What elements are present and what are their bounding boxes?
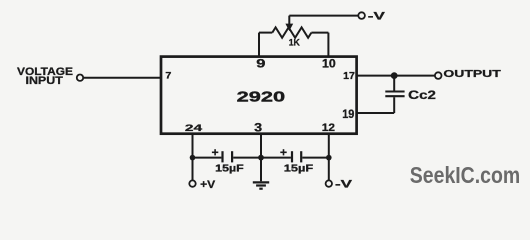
svg-text:9: 9 <box>256 58 265 70</box>
svg-text:-V: -V <box>335 179 353 191</box>
svg-text:12: 12 <box>322 122 335 134</box>
svg-text:24: 24 <box>185 123 203 134</box>
svg-text:INPUT: INPUT <box>26 75 64 87</box>
svg-text:10: 10 <box>322 58 336 70</box>
svg-text:OUTPUT: OUTPUT <box>443 68 501 80</box>
svg-text:-V: -V <box>368 11 386 23</box>
svg-text:15µF: 15µF <box>284 164 313 175</box>
svg-text:Cc2: Cc2 <box>408 88 436 102</box>
svg-text:3: 3 <box>254 122 262 134</box>
svg-text:19: 19 <box>342 107 354 121</box>
svg-text:SeekIC.com: SeekIC.com <box>410 162 520 188</box>
svg-text:7: 7 <box>165 71 171 81</box>
svg-text:15µF: 15µF <box>215 164 244 175</box>
svg-text:1K: 1K <box>289 38 300 49</box>
svg-text:17: 17 <box>343 71 355 82</box>
svg-text:+V: +V <box>200 179 216 191</box>
svg-text:2920: 2920 <box>237 89 286 106</box>
